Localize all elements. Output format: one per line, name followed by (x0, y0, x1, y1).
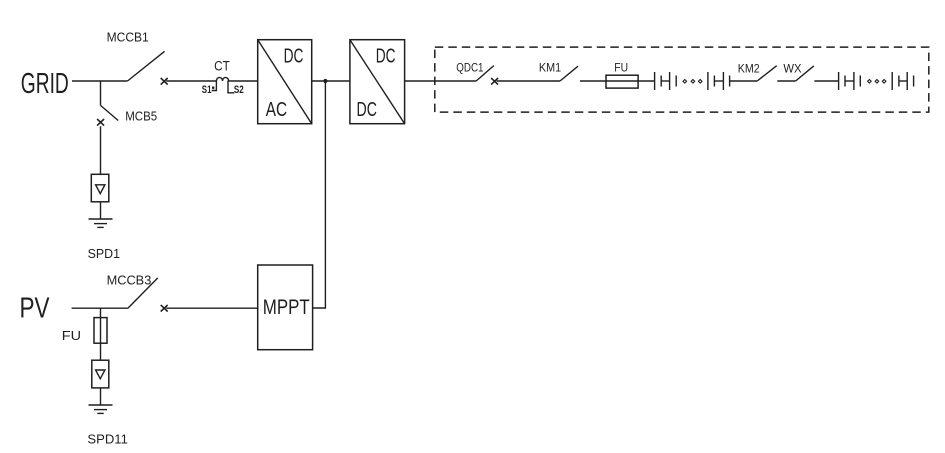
wire SPD1 to ground (100, 202, 102, 219)
switch WX (783, 64, 813, 81)
wire GRID to MCCB1 (72, 80, 128, 82)
wire QDC1 to KM1 (497, 80, 560, 82)
fuse FU PV (62, 318, 107, 344)
svg-text:SPD1: SPD1 (88, 247, 120, 261)
svg-text:WX: WX (783, 64, 802, 76)
wire MCCB3 to MPPT (166, 307, 258, 309)
wire CT to inverter (228, 80, 258, 82)
wire MCCB1 to CT (166, 80, 216, 82)
svg-text:QDC1: QDC1 (456, 62, 483, 75)
breaker MCB5 (101, 105, 158, 123)
wire WX to battery string 2 (814, 80, 838, 82)
wire PV to MCCB3 (72, 307, 128, 309)
svg-text:MPPT: MPPT (263, 296, 310, 319)
fuse FU battery (606, 62, 638, 88)
terminal x MCB5 (97, 119, 104, 126)
terminal x QDC1 (491, 78, 498, 85)
svg-text:AC: AC (266, 98, 287, 121)
wire SPD11 to ground (100, 388, 102, 405)
battery string 2 (839, 72, 914, 90)
svg-text:DC: DC (376, 44, 396, 68)
wire MCB5 to SPD1 (100, 126, 102, 174)
svg-text:S1: S1 (202, 84, 212, 97)
battery string 1 (655, 72, 730, 90)
svg-text:S2: S2 (234, 84, 244, 97)
svg-text:DC: DC (357, 97, 378, 120)
ground SPD11 (89, 405, 113, 413)
wire KM1 to fuse (580, 80, 606, 82)
svg-text:PV: PV (20, 293, 51, 324)
contactor KM1 (539, 62, 578, 81)
wire fuse to SPD11 (100, 343, 102, 360)
ground SPD1 (89, 219, 113, 227)
breaker MCCB3 (107, 272, 158, 308)
wire battery 1 to KM2 (730, 80, 758, 82)
terminal x MCCB1 (161, 78, 168, 85)
wire inverter to DC/DC (312, 80, 350, 82)
node DC bus junction (323, 79, 327, 83)
contactor KM2 (738, 63, 777, 81)
breaker MCCB1 (107, 30, 165, 81)
wire GRID junction down branch (100, 81, 102, 105)
wire KM2 to WX (777, 80, 795, 82)
svg-text:KM2: KM2 (738, 63, 760, 75)
battery cabinet dashed box (435, 47, 929, 112)
svg-text:KM1: KM1 (539, 62, 561, 74)
svg-text:SPD11: SPD11 (87, 431, 127, 446)
wire MPPT to DC bus node (313, 81, 326, 308)
terminal x MCCB3 (161, 305, 168, 312)
wire fuse to battery string 1 (638, 80, 655, 82)
MPPT box (258, 265, 313, 350)
converter U-DC/DC box (350, 40, 405, 124)
CT current transformer (202, 58, 244, 97)
svg-text:GRID: GRID (21, 68, 69, 100)
svg-text:CT: CT (214, 58, 230, 74)
wire PV junction down branch (100, 308, 102, 317)
svg-text:MCCB3: MCCB3 (107, 272, 152, 287)
wire DC/DC to battery cabinet (405, 80, 477, 82)
svg-text:FU: FU (62, 329, 81, 343)
svg-text:MCCB1: MCCB1 (107, 30, 149, 45)
inverter U-DC/AC box (258, 40, 312, 124)
surge protector SPD1 (91, 174, 109, 202)
svg-text:MCB5: MCB5 (125, 109, 157, 124)
disconnector QDC1 (456, 62, 494, 81)
svg-text:FU: FU (614, 62, 628, 75)
surge protector SPD11 (92, 360, 109, 388)
svg-text:DC: DC (284, 44, 304, 68)
